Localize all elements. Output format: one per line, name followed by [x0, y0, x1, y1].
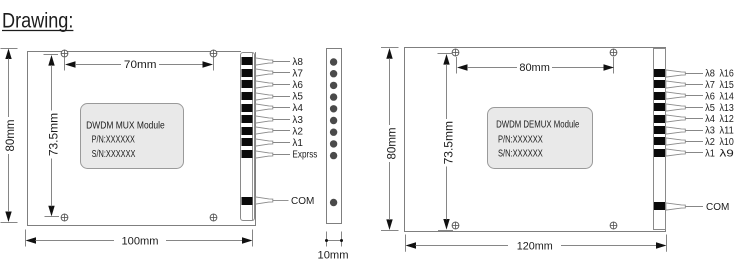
port row λ1 [242, 138, 304, 149]
port row λ5 / λ13 [654, 103, 734, 114]
screw hole left module top-right [210, 50, 217, 58]
port row COM (right) [654, 202, 729, 213]
side view port circles [330, 58, 337, 159]
svg-text:λ6: λ6 [292, 80, 303, 91]
dimension 70mm (left module top) [65, 58, 214, 71]
svg-text:λ9: λ9 [720, 148, 735, 159]
screw hole left module top-left [61, 50, 68, 58]
screw hole right module top-left [452, 49, 459, 57]
dimension 120mm (right module bottom) [406, 235, 667, 253]
svg-text:λ3: λ3 [292, 115, 303, 126]
svg-text:λ13: λ13 [720, 103, 735, 114]
dimension 80mm (left module left side) [1, 49, 18, 223]
svg-text:70mm: 70mm [124, 59, 157, 71]
port row λ7 / λ15 [654, 80, 734, 91]
svg-text:80mm: 80mm [387, 128, 399, 160]
svg-text:λ2: λ2 [705, 137, 715, 148]
svg-text:73.5mm: 73.5mm [46, 113, 60, 156]
svg-text:73.5mm: 73.5mm [441, 121, 455, 164]
svg-text:COM: COM [291, 196, 314, 207]
port row λ2 / λ10 [654, 137, 734, 148]
port row λ4 [242, 103, 304, 114]
port row λ1 / λ9 [654, 148, 734, 159]
port row λ3 [242, 115, 304, 126]
svg-text:80mm: 80mm [5, 120, 17, 152]
svg-text:λ11: λ11 [720, 126, 735, 137]
svg-text:P/N:XXXXXX: P/N:XXXXXX [498, 134, 543, 145]
dimension 73.5mm (left module inner) [44, 55, 61, 217]
port row λ8 / λ16 [654, 69, 734, 80]
svg-text:λ1: λ1 [292, 138, 303, 149]
svg-text:100mm: 100mm [122, 235, 159, 247]
port row COM (left) [242, 196, 315, 207]
dimension 10mm (side view) [318, 232, 349, 262]
left module adapter strip [241, 53, 255, 221]
port row λ7 [242, 68, 304, 79]
svg-text:λ3: λ3 [705, 126, 715, 137]
port row λ2 [242, 126, 304, 137]
svg-text:λ12: λ12 [720, 114, 735, 125]
svg-text:λ15: λ15 [720, 80, 735, 91]
svg-text:λ16: λ16 [720, 69, 735, 80]
title Drawing: [2, 10, 73, 33]
svg-text:λ4: λ4 [705, 114, 715, 125]
svg-text:λ6: λ6 [705, 91, 715, 102]
dimension 100mm (left module bottom) [26, 230, 253, 248]
svg-text:DWDM MUX Module: DWDM MUX Module [86, 120, 165, 131]
right module adapter strip [654, 49, 666, 230]
port row λ6 / λ14 [654, 91, 734, 102]
screw hole left module bottom-left [61, 214, 68, 222]
svg-text:λ8: λ8 [292, 57, 303, 68]
svg-text:λ2: λ2 [292, 126, 303, 137]
svg-text:P/N:XXXXXX: P/N:XXXXXX [92, 135, 136, 146]
svg-text:λ10: λ10 [720, 137, 735, 148]
svg-text:λ8: λ8 [705, 69, 715, 80]
left module name label plate [81, 104, 184, 169]
port row Exprss [242, 150, 318, 161]
svg-text:λ5: λ5 [705, 103, 715, 114]
svg-text:S/N:XXXXXX: S/N:XXXXXX [498, 148, 543, 159]
screw hole right module bottom-right [610, 222, 617, 230]
right module body (front view DWDM DEMUX) [405, 48, 666, 232]
dimension 73.5mm (right module inner) [438, 54, 456, 231]
port row λ4 / λ12 [654, 114, 734, 125]
side view panel [327, 49, 342, 224]
side view COM circle [330, 199, 337, 206]
left module body (front view DWDM MUX) [27, 51, 256, 226]
svg-text:λ4: λ4 [292, 103, 303, 114]
screw hole right module top-right [610, 49, 617, 57]
screw hole right module bottom-left [452, 222, 459, 230]
port row λ8 [242, 57, 304, 68]
svg-text:80mm: 80mm [519, 62, 550, 74]
port row λ5 [242, 92, 304, 103]
svg-text:Exprss: Exprss [292, 150, 317, 161]
port row λ6 [242, 80, 304, 91]
svg-text:Drawing:: Drawing: [2, 10, 73, 33]
svg-text:120mm: 120mm [517, 241, 553, 253]
svg-text:DWDM DEMUX Module: DWDM DEMUX Module [496, 120, 580, 131]
dimension 80mm (right module left side) [381, 48, 399, 231]
svg-text:λ7: λ7 [292, 68, 303, 79]
svg-text:λ7: λ7 [705, 80, 715, 91]
svg-text:λ5: λ5 [292, 92, 303, 103]
dimension 80mm (right module top) [457, 57, 615, 74]
svg-text:λ14: λ14 [720, 91, 735, 102]
svg-text:COM: COM [706, 202, 729, 213]
svg-text:λ1: λ1 [705, 148, 715, 159]
screw hole left module bottom-right [210, 214, 217, 222]
port row λ3 / λ11 [654, 126, 734, 137]
svg-text:S/N:XXXXXX: S/N:XXXXXX [92, 149, 136, 160]
right module name label plate [488, 108, 593, 169]
svg-text:10mm: 10mm [318, 250, 349, 262]
